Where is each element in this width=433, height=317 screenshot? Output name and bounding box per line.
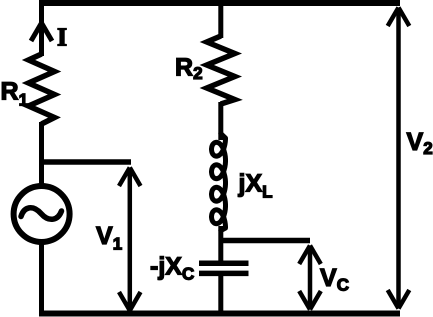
svg-text:V1: V1 xyxy=(96,222,122,254)
wire top rail xyxy=(39,0,400,6)
svg-text:VC: VC xyxy=(320,264,349,294)
svg-text:-jXC: -jXC xyxy=(150,252,194,283)
V1 measurement arrow xyxy=(119,168,141,311)
svg-text:jXL: jXL xyxy=(238,170,273,202)
resistor R2 xyxy=(207,36,235,104)
capacitor -jXC bottom plate xyxy=(199,271,249,277)
svg-text:R2: R2 xyxy=(175,54,203,84)
wire stub node A xyxy=(39,159,131,165)
wire left branch lower xyxy=(39,242,44,316)
wire bottom rail xyxy=(39,311,400,317)
wire middle branch lower xyxy=(218,276,223,316)
V2 measurement arrow xyxy=(388,8,410,309)
VC measurement arrow xyxy=(299,246,321,310)
wire left branch upper xyxy=(39,0,44,56)
resistor R1 xyxy=(29,54,55,124)
wire middle branch between R2 and L xyxy=(218,102,223,140)
AC source sine wave xyxy=(21,208,62,220)
capacitor -jXC top plate xyxy=(199,260,249,266)
wire left branch middle xyxy=(39,122,44,186)
current arrow I head xyxy=(31,23,52,41)
svg-text:V2: V2 xyxy=(407,128,433,158)
inductor jXL coil xyxy=(212,134,226,231)
wire middle branch upper xyxy=(218,0,223,38)
wire middle branch between L and C xyxy=(218,226,223,261)
AC source V1 circle xyxy=(14,186,70,242)
wire node to VC arrow xyxy=(219,238,311,244)
svg-text:I: I xyxy=(57,23,67,52)
